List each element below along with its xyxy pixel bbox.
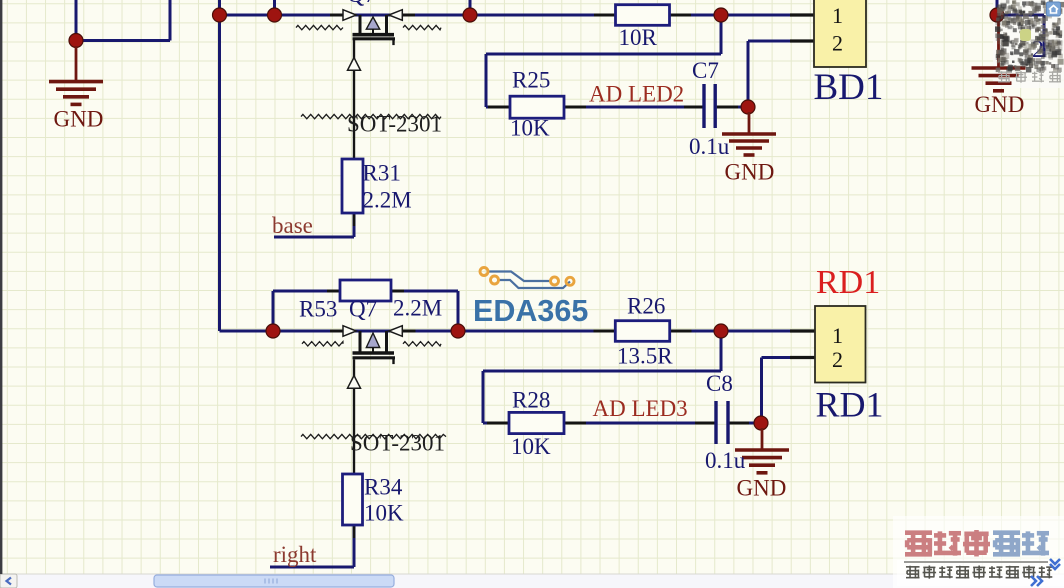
svg-text:EDA365: EDA365 <box>473 294 588 328</box>
svg-text:R28: R28 <box>512 388 550 413</box>
svg-text:Q7: Q7 <box>347 0 376 8</box>
svg-text:SOT-2301: SOT-2301 <box>350 431 445 456</box>
svg-text:2.2M: 2.2M <box>363 188 412 213</box>
svg-text:GND: GND <box>54 107 104 132</box>
svg-text:right: right <box>273 542 317 567</box>
svg-text:2.2M: 2.2M <box>393 296 442 321</box>
svg-text:GND: GND <box>737 476 787 501</box>
svg-text:2: 2 <box>832 31 843 56</box>
svg-text:0.1u: 0.1u <box>705 448 746 473</box>
svg-text:Q7: Q7 <box>349 297 377 322</box>
svg-text:2: 2 <box>832 347 843 372</box>
svg-text:0.1u: 0.1u <box>689 134 730 159</box>
svg-text:C8: C8 <box>706 371 733 396</box>
svg-text:10K: 10K <box>364 501 404 526</box>
svg-text:GND: GND <box>975 92 1025 117</box>
svg-text:GND: GND <box>725 160 775 185</box>
svg-text:13.5R: 13.5R <box>617 344 673 369</box>
svg-text:1: 1 <box>832 323 843 348</box>
svg-text:1: 1 <box>832 3 843 28</box>
svg-text:AD LED3: AD LED3 <box>593 396 688 421</box>
svg-text:R34: R34 <box>364 475 403 500</box>
svg-text:R25: R25 <box>512 68 550 93</box>
svg-text:10K: 10K <box>511 434 551 459</box>
svg-text:RD1: RD1 <box>816 264 880 301</box>
svg-text:SOT-2301: SOT-2301 <box>347 112 442 137</box>
svg-text:R31: R31 <box>363 161 401 186</box>
svg-text:RD1: RD1 <box>816 385 884 425</box>
svg-text:R26: R26 <box>627 294 665 319</box>
svg-text:AD LED2: AD LED2 <box>589 82 684 107</box>
svg-text:R53: R53 <box>299 297 337 322</box>
svg-text:10K: 10K <box>510 116 550 141</box>
svg-text:BD1: BD1 <box>814 67 884 108</box>
svg-text:C7: C7 <box>692 58 719 83</box>
svg-text:base: base <box>272 213 313 238</box>
svg-text:10R: 10R <box>619 25 658 50</box>
